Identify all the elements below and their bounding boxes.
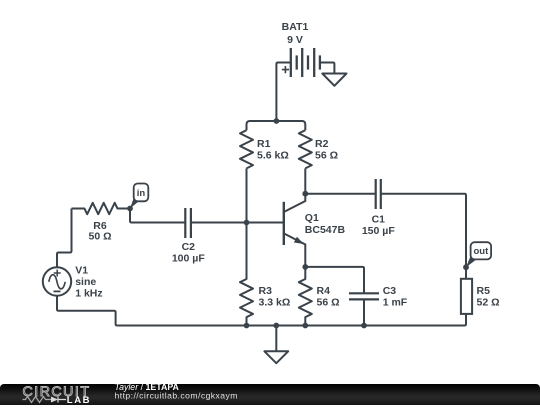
- wire R2 bottom lead: [304, 168, 306, 193]
- wire V1 top to R6: [57, 209, 72, 268]
- wire C1 to out branch: [381, 194, 466, 279]
- source V1: [43, 265, 103, 300]
- node rail ground: [273, 323, 279, 329]
- svg-text:56 Ω: 56 Ω: [317, 297, 340, 309]
- svg-text:in: in: [137, 188, 146, 199]
- ground (bottom): [264, 326, 288, 364]
- svg-text:sine: sine: [75, 276, 96, 288]
- svg-text:BAT1: BAT1: [282, 21, 309, 33]
- svg-text:5.6 kΩ: 5.6 kΩ: [257, 149, 289, 161]
- battery BAT1: [276, 21, 334, 77]
- flag in: [130, 184, 148, 209]
- footer bar: [0, 384, 540, 405]
- svg-text:100 µF: 100 µF: [172, 252, 205, 264]
- node rail C3: [361, 323, 367, 329]
- svg-text:V1: V1: [75, 265, 88, 277]
- svg-text:9 V: 9 V: [287, 34, 303, 46]
- wire bottom rail: [117, 325, 464, 327]
- node collector junction: [302, 191, 308, 197]
- svg-text:C1: C1: [372, 213, 386, 225]
- flag out: [466, 242, 491, 267]
- svg-text:http://circuitlab.com/cgkxaym: http://circuitlab.com/cgkxaym: [115, 390, 238, 400]
- logo CircuitLab: [23, 384, 92, 406]
- capacitor C2: [172, 208, 205, 264]
- node emitter junction: [302, 264, 308, 270]
- node rail R4: [302, 323, 308, 329]
- wire R5 bottom lead: [465, 314, 467, 326]
- svg-text:1 kHz: 1 kHz: [75, 288, 102, 300]
- transistor Q1: [284, 194, 346, 267]
- capacitor C1: [362, 179, 395, 237]
- node top junction: [274, 118, 280, 124]
- resistor R6: [72, 203, 131, 243]
- wire top bar R1/R2: [247, 121, 306, 130]
- resistor R2: [299, 130, 338, 168]
- wire V1 bottom to rail: [57, 296, 117, 326]
- svg-text:R2: R2: [315, 138, 329, 150]
- resistor R4: [299, 267, 340, 326]
- svg-text:50 Ω: 50 Ω: [88, 231, 111, 243]
- resistor R5: [461, 279, 500, 314]
- wire emitter to C3: [305, 267, 364, 293]
- svg-text:R5: R5: [477, 285, 491, 297]
- svg-text:56 Ω: 56 Ω: [315, 149, 338, 161]
- node rail R3: [244, 323, 250, 329]
- svg-text:out: out: [474, 246, 490, 257]
- node base junction: [244, 220, 250, 226]
- node in junction: [127, 206, 133, 212]
- resistor R3: [240, 223, 290, 326]
- wire battery to top bar: [275, 64, 277, 121]
- svg-text:R4: R4: [317, 285, 331, 297]
- svg-text:52 Ω: 52 Ω: [477, 296, 500, 308]
- svg-text:R3: R3: [259, 285, 273, 297]
- wire R1 bottom lead: [246, 168, 248, 222]
- svg-text:C3: C3: [383, 285, 397, 297]
- resistor R1: [240, 130, 289, 168]
- svg-text:150 µF: 150 µF: [362, 225, 395, 237]
- wire in junction down to C2: [130, 209, 185, 223]
- svg-text:3.3 kΩ: 3.3 kΩ: [259, 297, 291, 309]
- footer credit text: [115, 382, 238, 400]
- ground (battery): [322, 74, 346, 86]
- svg-text:R1: R1: [257, 138, 271, 150]
- svg-text:BC547B: BC547B: [305, 224, 346, 236]
- wire C2 to base: [191, 222, 284, 224]
- svg-text:Q1: Q1: [305, 212, 319, 224]
- node out junction: [463, 264, 469, 270]
- svg-text:1 mF: 1 mF: [383, 297, 408, 309]
- wire collector to C1: [305, 193, 375, 195]
- capacitor C3: [349, 285, 408, 309]
- svg-text:LAB: LAB: [67, 395, 91, 405]
- wire C3 bottom lead: [363, 299, 365, 325]
